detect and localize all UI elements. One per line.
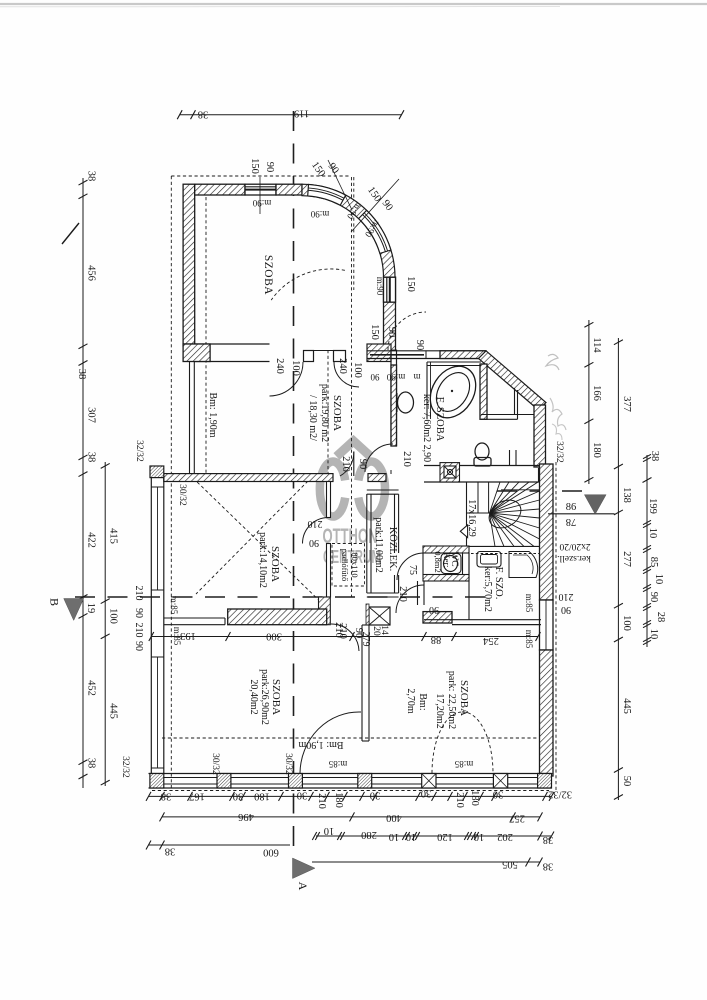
svg-text:90: 90 [414,340,425,351]
svg-text:park: 22,50m2: park: 22,50m2 [446,671,457,729]
svg-text:75: 75 [407,565,418,575]
svg-text:38: 38 [86,758,97,769]
svg-text:m:90: m:90 [375,277,385,296]
svg-text:100: 100 [621,615,632,631]
svg-text:SZOBA: SZOBA [269,546,281,582]
svg-text:30: 30 [421,788,432,799]
svg-text:m:90: m:90 [386,372,405,382]
bathroom west wall [390,350,392,446]
svg-text:100: 100 [108,608,119,624]
WC door arc [397,553,424,580]
svg-text:90: 90 [133,608,144,618]
svg-text:180: 180 [469,790,480,806]
bottom dimension row 1 [149,795,552,797]
svg-text:park:11,00m2: park:11,00m2 [373,517,384,572]
dimension chain far right small [646,455,648,647]
svg-text:254: 254 [482,635,499,646]
svg-text:38: 38 [543,834,554,845]
chimney box 14/20 [369,607,390,625]
svg-text:20,40m2: 20,40m2 [248,679,259,714]
leader lines arc windows [328,160,352,210]
svg-text:10: 10 [647,528,658,539]
door arc hall to bottom room [396,585,424,613]
dimension chain right 377/138/277/100/445/50 [617,338,619,800]
bottom outer wall [149,773,552,775]
stray pencil tick top-left [62,223,79,244]
svg-text:17,20m2: 17,20m2 [434,693,445,728]
WC room walls [423,546,469,553]
bottom dimension row 3 [316,835,552,837]
svg-text:38: 38 [86,171,97,182]
arc window 2 [359,210,391,253]
tub recess wall [480,364,487,419]
door arc from room 14,10 [331,624,359,651]
svg-text:10: 10 [406,831,417,842]
dimension chain second left [104,462,106,786]
svg-text:257: 257 [509,812,525,823]
svg-text:A: A [296,882,310,891]
headroom dashed line left rooms [205,197,207,474]
svg-text:445: 445 [108,703,119,719]
section marker A triangle bottom [293,858,316,879]
svg-text:SZOBA: SZOBA [331,395,343,431]
door leaf arc left door [270,362,304,396]
toilet bathroom [475,443,489,460]
svg-text:210: 210 [133,623,144,638]
bottom wall window lines [164,777,217,779]
svg-text:38: 38 [86,452,97,463]
datum line right [548,513,615,515]
svg-text:14: 14 [379,625,389,635]
stair right outer wall [540,464,554,600]
svg-text:496: 496 [238,811,254,822]
watermark O glyph [320,462,385,517]
svg-text:100: 100 [290,360,301,376]
svg-text:38: 38 [165,846,176,857]
KOZLEK south cap [367,592,399,594]
bottom dimension row 2 [162,816,540,818]
interior wall below room 14,10 hatched [228,609,327,625]
window top wall [245,184,276,195]
svg-text:m:85: m:85 [328,759,347,769]
svg-text:90: 90 [370,372,380,382]
hatched wall piece under WC [423,612,452,623]
svg-text:90: 90 [429,604,439,615]
lintel lines between jambs [314,350,334,352]
door leaf KOZLEK entry [353,452,355,477]
door swing arc bathroom door [365,444,393,472]
svg-text:Bm: 1,90m: Bm: 1,90m [298,739,343,750]
tub recess right wall [514,388,516,415]
svg-text:114: 114 [591,337,602,353]
svg-text:400: 400 [386,812,402,823]
scanner edge line top [0,3,707,5]
svg-text:202: 202 [497,831,513,842]
svg-text:210: 210 [308,518,323,529]
svg-text:167: 167 [189,791,205,802]
svg-text:2x20/20: 2x20/20 [559,541,590,551]
section marker B triangle left [64,599,84,621]
tub platform edge [426,362,428,419]
stairwell bottom edge [467,545,540,547]
arc window 1 [308,184,346,205]
room 14,10 east wall lower [327,544,331,598]
svg-text:F. SZOBA: F. SZOBA [434,397,445,442]
svg-text:120: 120 [437,831,453,842]
headroom dashed line Bm 1,90 bottom rooms [162,737,537,739]
bottom wall pillar boxes with X [422,774,436,789]
svg-text:m:85: m:85 [172,627,182,646]
WC right wall [462,553,464,575]
svg-text:m: m [413,372,420,382]
section line B-B left part [75,596,497,598]
svg-text:30: 30 [233,791,244,802]
svg-text:30/32: 30/32 [283,753,293,775]
svg-text:78: 78 [566,516,577,527]
svg-text:150: 150 [369,324,380,340]
vent dashed line [471,553,539,555]
wall segment right of KOZLEK door [368,474,386,482]
door arc room 14,10 to KOZLEK [303,518,329,544]
svg-text:85: 85 [648,557,659,568]
svg-text:456: 456 [86,265,97,281]
room 14,10 east wall stub [327,482,331,518]
section line A-A vertical [293,111,295,853]
svg-text:SZOBA: SZOBA [458,680,470,716]
svg-text:210: 210 [133,586,144,601]
laundry tray [477,552,501,568]
glazing line upper window [157,487,159,590]
svg-text:park:19,80 m2: park:19,80 m2 [319,384,330,442]
door swing arc KOZLEK entry [340,452,354,477]
svg-text:10: 10 [653,574,664,585]
svg-text:30: 30 [370,790,381,801]
svg-text:422: 422 [86,532,97,548]
left outer wall room 14,10 (window band) [150,478,152,773]
divider wall between bottom rooms [361,625,363,741]
outer wall right below arc [384,277,396,350]
pier on top wall [276,184,302,195]
svg-text:30/32: 30/32 [177,484,187,506]
svg-text:10: 10 [648,629,659,640]
stair upper step line [501,489,539,491]
bathtub [421,358,485,426]
east wall below chamfer [534,405,546,467]
thin wall left part [164,617,225,619]
door arc between bottom rooms [300,712,361,773]
duct box with X left [440,463,460,482]
svg-text:90: 90 [133,641,144,651]
glazing line lower window [157,657,159,768]
right outer wall lower segment [540,650,554,776]
wall under WC/FSZO [452,619,541,621]
svg-text:279: 279 [360,632,371,647]
right wall window segment [540,600,554,650]
svg-text:415: 415 [108,528,119,544]
stairwell left edge [466,482,468,546]
dashed door swing into top room [271,269,345,300]
svg-text:ker.szell.: ker.szell. [557,553,591,563]
svg-text:452: 452 [86,680,97,696]
svg-text:90: 90 [648,592,659,603]
svg-text:505: 505 [502,859,518,870]
svg-text:119: 119 [294,108,309,119]
svg-text:90: 90 [561,604,571,615]
door leaf arc right door [334,362,359,387]
svg-text:KÖZLEK.: KÖZLEK. [387,527,399,572]
bathroom top wall with window [367,350,486,352]
svg-text:210: 210 [559,591,574,602]
bottom right corner pillar [538,774,552,789]
svg-text:210: 210 [397,586,408,602]
wall segment right of second door [367,344,391,362]
interior wall below top room [183,343,269,345]
svg-text:B: B [48,598,62,606]
svg-text:m:85: m:85 [524,594,534,613]
svg-text:90: 90 [386,327,397,338]
svg-text:90: 90 [264,162,275,173]
svg-text:86: 86 [566,502,577,513]
svg-text:padlófűtő: padlófűtő [340,549,350,582]
svg-text:300: 300 [266,631,282,642]
dimension chain far left [82,178,84,788]
bottom wall pillars [150,774,164,789]
svg-text:166: 166 [591,385,602,401]
svg-text:SZOBA: SZOBA [262,255,274,295]
svg-text:F. SZO.: F. SZO. [493,567,504,600]
svg-text:30/32: 30/32 [210,753,220,775]
roof overhang dashed outline [171,175,350,177]
stair direction arrow [460,525,467,538]
svg-text:park:14,10m2: park:14,10m2 [257,532,268,588]
svg-text:19: 19 [85,603,96,614]
svg-text:377: 377 [621,396,632,412]
svg-text:90: 90 [309,537,319,548]
svg-text:SZOBA: SZOBA [270,679,282,715]
svg-text:80x110: 80x110 [350,552,360,577]
svg-text:32/32: 32/32 [548,789,572,800]
svg-text:0,8m2: 0,8m2 [433,551,443,573]
toilet WC [441,554,461,574]
svg-text:28: 28 [655,612,666,623]
svg-text:240: 240 [337,358,348,374]
svg-text:277: 277 [621,551,632,567]
svg-text:32/32: 32/32 [554,441,564,463]
svg-text:Bm: 1,90m: Bm: 1,90m [207,392,218,437]
svg-text:m:85: m:85 [169,596,179,615]
svg-text:90: 90 [357,459,368,470]
door jamb stub 2 [334,351,346,362]
svg-text:50: 50 [621,776,632,787]
svg-text:38: 38 [198,109,209,120]
svg-text:138: 138 [621,487,632,503]
tub recess bottom lines [481,414,534,416]
top dimension chain [180,114,402,116]
bottom dimension row 4 600 [149,844,291,846]
svg-text:32/32: 32/32 [120,756,130,778]
svg-text:ker: 7,60m2 2,90: ker: 7,60m2 2,90 [421,394,432,462]
duct box with X right [539,469,551,482]
outer wall top with window [195,184,245,195]
washbasin [398,392,414,413]
KOZLEK west wall [366,494,368,593]
dashed door swing bathroom (from hall) [388,312,426,350]
dashed french-door arch right room [432,712,462,773]
watermark roof chevron [337,441,371,457]
svg-text:10: 10 [474,831,485,842]
svg-text:199: 199 [647,498,658,514]
padlofuto dashed box [332,544,365,587]
middle dimension row [151,636,538,638]
svg-text:150: 150 [405,276,416,292]
svg-text:180: 180 [333,792,344,808]
top wall of bottom-right room [424,619,452,621]
svg-text:210: 210 [401,451,412,467]
svg-text:210: 210 [333,622,344,638]
svg-text:m:85: m:85 [524,630,534,649]
svg-text:Bm:: Bm: [417,693,428,710]
svg-text:38: 38 [543,861,554,872]
short wall connector bathroom-stair [509,450,511,466]
faint handwriting marks right margin [546,354,559,370]
svg-text:180: 180 [254,791,270,802]
svg-text:600: 600 [263,847,279,858]
curved corner wall (quarter arc annulus) [302,184,395,277]
window right wall [384,277,396,302]
svg-text:/ 18,30 m2/: / 18,30 m2/ [307,395,318,441]
svg-text:100: 100 [352,362,363,378]
KOZLEK north cap [367,489,399,491]
svg-text:38: 38 [649,451,660,462]
roof diagonal dashed lines room 14,10 [193,478,329,610]
wall band above stair [424,465,551,467]
svg-text:30: 30 [297,790,308,801]
svg-text:88: 88 [431,634,442,645]
dimension chain right inner 114/166/180 [588,320,590,484]
svg-text:240: 240 [274,358,285,374]
svg-text:38: 38 [76,369,87,380]
svg-text:park:26,90m2: park:26,90m2 [259,669,270,725]
left wall middle section (thin) [189,362,191,475]
svg-text:210: 210 [454,792,465,808]
F.SZO west edge [468,553,470,620]
svg-text:ker:5,70m2: ker:5,70m2 [482,566,493,612]
svg-text:150: 150 [249,158,260,174]
section marker B triangle right [584,495,606,515]
section line B-B right part [497,490,593,492]
outer wall left (top room) [183,184,195,346]
svg-text:210: 210 [316,793,327,809]
stair walk-line ellipse [484,494,526,533]
hall east wall lower [417,581,419,605]
svg-text:38: 38 [161,791,172,802]
bathroom door opening label side [390,470,392,474]
svg-text:m:90: m:90 [252,198,271,208]
svg-text:32/32: 32/32 [134,440,144,462]
svg-text:2,70m: 2,70m [405,688,416,714]
junction block [319,597,331,625]
svg-text:30: 30 [493,789,504,800]
svg-text:m:90: m:90 [310,209,329,219]
svg-text:280: 280 [361,829,377,840]
bottom dimension row 5 505 [312,861,540,863]
KOZLEK east wall [394,494,396,553]
svg-text:10: 10 [389,831,400,842]
svg-text:m:85: m:85 [454,759,473,769]
svg-text:210: 210 [340,456,351,472]
chamfered corner wall [479,351,547,410]
svg-text:445: 445 [621,698,632,714]
corner shower [509,552,538,578]
winder steps fan [490,482,501,513]
pillar box 30/32 at left wall top [150,466,164,478]
interior wall above room 14,10 (y 474-481) [164,474,333,482]
svg-text:307: 307 [86,407,97,423]
door jamb stub 1 [304,351,314,362]
straight steps [477,482,479,513]
svg-text:10: 10 [324,825,335,836]
svg-text:180: 180 [591,442,602,458]
